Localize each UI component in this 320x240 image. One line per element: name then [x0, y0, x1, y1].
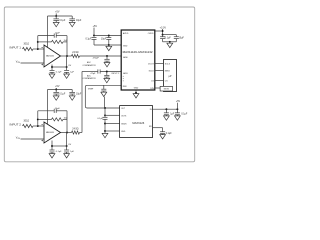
c1 node V- a	[51, 66, 53, 68]
c1 wire feedback left rail	[37, 36, 39, 49]
svg-text:10pF: 10pF	[55, 108, 61, 110]
capacitor ch2 input bypass	[106, 72, 108, 76]
svg-text:0.1µF: 0.1µF	[181, 114, 188, 116]
capacitor c1 bypass 0.1uF	[55, 16, 57, 19]
svg-text:10pF: 10pF	[55, 33, 61, 35]
capacitor ref rail 0.1uF	[103, 117, 108, 119]
c1 node input junction	[37, 48, 39, 50]
capacitor c1 V- bypass 0.1uF	[50, 70, 55, 72]
svg-text:0.1µF: 0.1µF	[59, 94, 66, 96]
svg-text:47pF: 47pF	[90, 73, 96, 75]
svg-text:SCLK: SCLK	[149, 70, 155, 72]
c2 node V- a	[51, 145, 53, 147]
svg-text:INPUT 2: INPUT 2	[9, 123, 21, 127]
ground OVDD	[167, 43, 173, 47]
node OVDD pin	[162, 30, 164, 32]
c2 ground V- bypass1	[49, 154, 55, 158]
node ch2 RC	[106, 71, 108, 73]
wire AVDD label drop	[93, 28, 95, 36]
c2 wire VCM to noninv input	[21, 138, 45, 140]
node VREF rail bottom	[104, 107, 106, 109]
svg-text:0.1µF: 0.1µF	[56, 72, 62, 74]
ground U2 in2	[175, 116, 181, 120]
capacitor c1 bypass 10uF	[71, 16, 73, 19]
capacitor U2 in 1uF	[165, 109, 167, 113]
svg-text:0.1µF: 0.1µF	[56, 151, 62, 153]
ground ch2 RC	[104, 78, 110, 82]
c2 wire V- tie	[52, 145, 67, 147]
svg-text:+3.3V: +3.3V	[160, 26, 167, 29]
c2 wire op-amp V- pin down	[51, 141, 53, 151]
node U2 in b	[176, 108, 178, 110]
c1 ground V- bypass1	[49, 74, 55, 78]
svg-text:+5V: +5V	[176, 101, 181, 103]
wire GND row	[105, 130, 120, 132]
capacitor OVDD 0.1uF	[162, 35, 164, 37]
wire AGND row	[94, 44, 121, 46]
svg-text:10µF: 10µF	[101, 38, 107, 40]
c2 wire feedback right rail	[66, 111, 68, 133]
svg-text:OVDD: OVDD	[148, 33, 154, 35]
wire ch2 riser	[81, 72, 83, 133]
svg-text:24.9Ω: 24.9Ω	[72, 128, 78, 130]
c2 node +5V junction	[55, 89, 57, 91]
svg-text:0.1µF: 0.1µF	[165, 38, 172, 40]
c1 node V- b	[66, 66, 68, 68]
svg-text:1µF: 1µF	[70, 72, 74, 74]
capacitor VREF bypass	[103, 85, 105, 89]
c1 wire VCM to noninv input	[21, 62, 45, 64]
capacitor U2 in 0.1uF	[176, 109, 178, 113]
c1 ground bypass2	[69, 22, 75, 26]
wire VREF cap lower stub	[104, 97, 106, 108]
node AVDD a	[93, 35, 95, 37]
svg-text:ADC: ADC	[87, 75, 92, 78]
svg-text:301Ω: 301Ω	[24, 121, 30, 123]
svg-text:µP: µP	[169, 76, 172, 78]
svg-text:0.1µF: 0.1µF	[166, 133, 173, 135]
IC U3 host microcontroller	[164, 60, 177, 92]
ground ch1 RC	[104, 63, 110, 67]
wire GNDS row	[105, 123, 120, 125]
svg-text:0.1µF: 0.1µF	[85, 38, 92, 40]
wire OVDD bottom rail	[163, 41, 177, 43]
svg-text:301Ω: 301Ω	[24, 44, 30, 46]
svg-text:ADC: ADC	[87, 61, 92, 64]
svg-text:10µF: 10µF	[179, 38, 185, 40]
wire U2 +5V drop	[176, 103, 178, 110]
svg-text:DOUT: DOUT	[148, 63, 154, 65]
wire ref rail upper	[104, 108, 106, 117]
svg-text:INPUT 2: INPUT 2	[112, 73, 121, 75]
c2 ground bypass1	[53, 96, 59, 100]
c2 node output	[66, 132, 68, 134]
wire ch2 out a	[80, 132, 83, 134]
c1 wire input to inv input	[33, 48, 44, 50]
node U2 in a	[165, 108, 167, 110]
wire ch2 to AIN1	[82, 71, 98, 73]
svg-text:24.9Ω: 24.9Ω	[72, 52, 78, 54]
c1 wire output rail down	[66, 56, 68, 70]
c1 wire output	[61, 55, 72, 57]
node OVDD gnd	[169, 41, 171, 43]
wire ch1 to AIN0	[80, 55, 122, 57]
svg-text:OUTS: OUTS	[121, 115, 127, 117]
c1 wire feedback right rail	[66, 36, 68, 56]
wire SPI DOUT	[155, 63, 164, 65]
svg-text:GND: GND	[123, 46, 128, 48]
ground U2	[102, 133, 108, 137]
c2 node V- b	[66, 145, 68, 147]
wire SPI SCLK	[155, 70, 164, 72]
svg-text:DIN: DIN	[150, 88, 154, 90]
op-amp c2 MAX4430	[44, 122, 61, 143]
svg-text:AVDD: AVDD	[123, 32, 129, 35]
capacitor ch2 series	[98, 69, 100, 73]
c2 wire +5V to op-amp V+ pin	[47, 90, 49, 125]
svg-text:0.1µF: 0.1µF	[59, 20, 66, 22]
wire SPI CS	[155, 80, 164, 82]
wire U2 NR	[153, 127, 163, 129]
wire OVDD label drop	[162, 29, 164, 35]
wire SPI DIN	[155, 87, 160, 89]
c2 wire input to inv input	[33, 125, 44, 127]
svg-text:MAX11129–MAX11132: MAX11129–MAX11132	[123, 50, 153, 54]
node ref rail d	[104, 130, 106, 132]
c1 wire V- tie	[52, 66, 67, 68]
c1 wire +5V to op-amp V+ pin	[47, 16, 49, 48]
svg-text:10µF: 10µF	[76, 20, 82, 22]
svg-text:1µF: 1µF	[170, 114, 175, 116]
capacitor AVDD 10uF	[108, 35, 110, 37]
wire ref rail lower	[104, 119, 106, 131]
c2 wire output	[61, 132, 72, 134]
capacitor c2 V- bypass 1uF	[64, 150, 69, 152]
c1 wire +5V label drop	[55, 13, 57, 16]
capacitor c2 bypass 0.1uF	[55, 90, 57, 93]
c1 ground bypass1	[53, 22, 59, 26]
c2 wire feedback left rail	[37, 111, 39, 126]
c2 ground bypass2	[69, 96, 75, 100]
wire OUTS row	[105, 114, 120, 116]
c2 wire +5V rail	[48, 89, 73, 91]
IC U1 MAX11129-MAX11132 ADC	[121, 30, 155, 90]
svg-text:0.1µF: 0.1µF	[97, 118, 103, 120]
capacitor c1 V- bypass 1uF	[64, 70, 69, 72]
wire U2 IN row	[153, 108, 178, 110]
node U1 gnd	[135, 92, 137, 94]
wire OVDD pin row	[155, 30, 163, 32]
svg-text:+5V: +5V	[55, 85, 60, 88]
svg-text:470pF: 470pF	[93, 57, 100, 59]
svg-text:GND: GND	[134, 88, 139, 90]
capacitor ch1 input 470pF	[106, 56, 108, 59]
c2 node feedback res tap	[37, 118, 39, 120]
wire VREF loop	[85, 85, 121, 108]
svg-text:COMPARATOR: COMPARATOR	[82, 64, 96, 67]
node ref rail b	[104, 114, 106, 116]
c1 node +5V junction	[55, 15, 57, 17]
U1 channel ellipsis dots	[122, 75, 125, 78]
wire U1 gnd pin	[135, 90, 137, 93]
node AGND	[108, 44, 110, 46]
svg-text:GNDS: GNDS	[121, 124, 127, 126]
capacitor AVDD 0.1uF	[92, 38, 97, 40]
svg-text:MOSI: MOSI	[164, 89, 170, 91]
ground U2 in1	[164, 116, 170, 120]
ground U2 NR	[160, 135, 166, 139]
c2 wire +5V label drop	[55, 88, 57, 90]
op-amp c1 MAX4430	[44, 45, 61, 67]
IC U2 MAX6126 voltage reference	[120, 106, 153, 138]
svg-text:INPUT 1: INPUT 1	[9, 46, 21, 50]
svg-text:COMPARATOR: COMPARATOR	[82, 77, 96, 80]
ground U1	[133, 94, 139, 98]
capacitor OVDD 10uF	[175, 35, 177, 37]
svg-text:+5V: +5V	[55, 11, 60, 14]
capacitor c2 bypass 10uF	[71, 90, 73, 93]
svg-text:MAX4430: MAX4430	[46, 55, 54, 58]
svg-text:MAX4430: MAX4430	[46, 131, 54, 134]
wire AVDD row	[94, 35, 121, 37]
c2 ground V- bypass2	[64, 154, 70, 158]
c1 wire op-amp V- pin down	[51, 65, 53, 71]
svg-text:SCLK: SCLK	[165, 63, 171, 65]
svg-text:MISO: MISO	[165, 70, 171, 72]
ground AGND	[106, 46, 112, 50]
node ch1 RC	[106, 55, 108, 57]
c1 node output	[66, 55, 68, 57]
c2 node input junction	[37, 125, 39, 127]
c1 ground V- bypass2	[64, 74, 70, 78]
c2 wire output rail down	[66, 133, 68, 151]
capacitor c2 V- bypass 0.1uF	[50, 150, 55, 152]
svg-text:10µF: 10µF	[76, 94, 82, 96]
svg-text:1µF: 1µF	[70, 151, 74, 153]
net tag MOSI box	[160, 86, 172, 91]
svg-text:MAX6126: MAX6126	[132, 121, 144, 125]
capacitor U2 NR 0.1uF	[160, 132, 165, 134]
svg-text:GND: GND	[121, 131, 126, 133]
node ref rail c	[104, 123, 106, 125]
outer frame	[4, 7, 194, 162]
node OVDD rail	[162, 34, 164, 36]
c1 node feedback res tap	[37, 41, 39, 43]
svg-text:+5V: +5V	[93, 25, 98, 28]
wire OVDD top rail	[163, 34, 177, 36]
c1 wire +5V rail	[48, 15, 73, 17]
svg-text:VREF: VREF	[88, 88, 94, 90]
ground VREF cap	[101, 92, 107, 96]
